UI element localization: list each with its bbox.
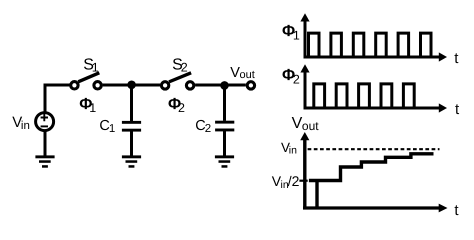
svg-text:/2: /2 xyxy=(288,173,300,189)
svg-text:out: out xyxy=(240,69,255,81)
tick at Vin/2 level xyxy=(299,180,307,182)
svg-text:1: 1 xyxy=(89,101,96,115)
label phi2 (waveform) xyxy=(282,67,300,86)
label phi2 (circuit) xyxy=(168,96,185,115)
capacitor C2 xyxy=(215,121,234,132)
terminal Vout (open circle) xyxy=(247,82,254,89)
waveform phi1: clock pulses xyxy=(309,33,432,57)
label S1 xyxy=(83,56,99,74)
label Vin (axis) xyxy=(281,140,297,156)
wire S2 to Vout terminal xyxy=(195,84,246,87)
svg-text:in: in xyxy=(289,144,297,156)
waveform phi2: y-axis with arrow xyxy=(300,64,309,108)
voltage source V1 (Vin) xyxy=(36,113,54,131)
node A junction dot xyxy=(127,81,136,90)
svg-text:in: in xyxy=(21,120,30,132)
wire C1 to ground xyxy=(130,131,133,156)
svg-text:1: 1 xyxy=(109,123,115,135)
label Vout (circuit) xyxy=(230,65,255,81)
waveform phi1: x-axis with arrow and baseline xyxy=(304,52,448,61)
waveform Vout: x-axis with arrow and baseline xyxy=(303,204,448,213)
ground (under C2) xyxy=(215,155,234,167)
label phi1 (waveform) xyxy=(282,23,300,42)
wire Vin top-left corner to S1 xyxy=(45,85,70,112)
wire S1 to S2 xyxy=(103,84,161,87)
waveform phi1: y-axis with arrow xyxy=(300,13,309,57)
svg-text:2: 2 xyxy=(293,72,300,86)
waveform phi2: x-axis with arrow and baseline xyxy=(304,103,448,112)
wire C2 to ground xyxy=(223,131,226,156)
label Vout (plot title) xyxy=(292,115,320,133)
switch S1 xyxy=(71,73,102,89)
label phi1 (circuit) xyxy=(79,96,96,115)
staircase Vout curve xyxy=(309,154,434,207)
svg-text:2: 2 xyxy=(181,60,188,74)
label Vin/2 xyxy=(272,173,300,191)
svg-text:1: 1 xyxy=(92,60,99,74)
ground (under C1) xyxy=(122,155,141,167)
svg-text:2: 2 xyxy=(205,123,211,135)
wire node B to C2 xyxy=(223,85,226,121)
capacitor C1 xyxy=(122,121,141,132)
node B junction dot xyxy=(220,81,229,90)
ground (under Vin) xyxy=(35,155,54,167)
waveform Vout: y-axis with arrow xyxy=(300,132,309,208)
waveform phi2: clock pulses xyxy=(314,84,414,108)
wire node A to C1 xyxy=(130,85,133,121)
label S2 xyxy=(172,56,188,74)
svg-text:out: out xyxy=(302,119,319,133)
svg-text:1: 1 xyxy=(293,28,300,42)
dashed line at Vin level xyxy=(308,148,440,150)
switch S2 xyxy=(161,73,193,89)
wire Vin to ground xyxy=(44,131,47,156)
label C1 xyxy=(99,118,115,135)
svg-text:2: 2 xyxy=(178,101,185,115)
label Vin (source) xyxy=(12,114,30,132)
label C2 xyxy=(195,118,211,135)
